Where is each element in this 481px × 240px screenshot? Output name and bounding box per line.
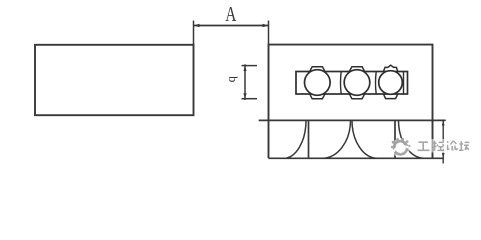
svg-text:b: b: [226, 76, 240, 82]
watermark text kong (控): [433, 141, 446, 152]
strip top line (die block bottom edge, overhanging): [259, 119, 446, 121]
punch circle 1: [305, 70, 331, 96]
circle 1 top tab: [310, 67, 325, 71]
bar divider 3: [403, 72, 405, 95]
dimension b top arrowhead: [243, 66, 246, 71]
dimension b label: [226, 76, 240, 82]
punch circle 3: [379, 71, 403, 95]
circle 3 top tab with center peak: [384, 65, 398, 71]
watermark logo (gear with swoosh): [391, 138, 411, 154]
circle 2 top tab: [350, 67, 365, 71]
scallop arc 1: [284, 120, 307, 158]
strip height dimension line: [442, 120, 444, 163]
circle 1 bottom tab: [310, 94, 325, 99]
scallop arc 2: [322, 120, 351, 158]
strip bottom line: [269, 157, 444, 159]
bar divider 2: [375, 72, 378, 95]
punch circle 2: [344, 70, 370, 96]
dimension b bottom tick: [242, 98, 258, 100]
strip height dimension top arrowhead: [442, 120, 445, 125]
strip divider vertical 1: [308, 120, 310, 158]
dimension b line: [244, 64, 246, 100]
dimension b top tick: [242, 65, 258, 67]
bar divider 1: [340, 72, 343, 95]
watermark text lun (论): [447, 141, 458, 152]
dimension A left extension line: [193, 21, 195, 45]
dimension A left arrowhead: [194, 24, 200, 28]
strip height dimension top tick: [433, 119, 446, 121]
strip height dimension bottom arrowhead: [442, 153, 445, 158]
dimension A right extension line: [268, 21, 270, 45]
scallop arc 4 (mirrored): [399, 120, 425, 158]
dimension A right arrowhead: [263, 24, 269, 28]
watermark text gong (工): [418, 142, 431, 151]
svg-text:A: A: [225, 2, 237, 26]
punch retainer bar: [296, 72, 408, 95]
dimension A label: [225, 2, 237, 26]
scallop arc 3 (mirrored): [352, 120, 378, 158]
watermark text tan (坛): [459, 141, 470, 151]
watermark whitening backing: [391, 138, 469, 157]
die block outline (left, top, right edges): [269, 45, 433, 159]
left plate rectangle: [35, 45, 194, 115]
dimension A line: [194, 25, 269, 27]
circle 2 bottom tab: [350, 94, 365, 99]
circle 3 bottom tab: [384, 94, 398, 98]
strip divider vertical 2: [394, 120, 396, 158]
dimension b bottom arrowhead: [243, 93, 246, 98]
